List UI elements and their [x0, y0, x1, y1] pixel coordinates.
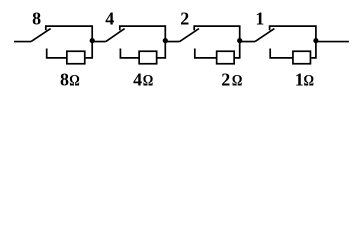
wire main between node A and switch S4 — [92, 41, 106, 43]
svg-text:Ω: Ω — [143, 72, 154, 89]
node B junction dot — [163, 38, 168, 43]
resistor R4 right lead up to node B — [158, 42, 166, 58]
switch S4 arm — [106, 29, 125, 42]
resistor R8 left stub and lead — [47, 49, 67, 58]
wire main between node C and switch S1 — [240, 41, 255, 43]
svg-text:Ω: Ω — [304, 72, 315, 89]
wire main lead left — [14, 41, 31, 43]
resistor R2 body — [217, 51, 235, 64]
svg-text:1: 1 — [255, 8, 264, 28]
node A junction dot — [90, 38, 95, 43]
resistor R8 body — [67, 51, 85, 64]
svg-text:1: 1 — [295, 70, 304, 90]
resistor R1 right lead up to node D — [311, 42, 316, 58]
switch S4 contact and top bypass wire to node B — [120, 26, 166, 41]
resistor R4 body — [139, 51, 157, 64]
switch S1 arm — [255, 29, 274, 42]
svg-text:Ω: Ω — [232, 72, 243, 89]
switch S8 arm — [31, 29, 51, 42]
switch S1 contact and top bypass wire to node D — [270, 26, 316, 41]
switch S2 contact and top bypass wire to node C — [194, 26, 240, 41]
switch S8 contact and top bypass wire to node A — [46, 26, 92, 41]
resistor R8 right lead up to node A — [86, 42, 93, 58]
resistor R2 right lead up to node C — [235, 42, 240, 58]
node C junction dot — [237, 38, 242, 43]
resistor R2 left stub and lead — [195, 49, 217, 58]
svg-text:8: 8 — [32, 8, 41, 28]
resistor R1 body — [293, 51, 311, 64]
node D junction dot — [313, 38, 318, 43]
resistor R4 left stub and lead — [120, 49, 139, 58]
svg-text:Ω: Ω — [69, 72, 80, 89]
svg-text:4: 4 — [133, 70, 142, 90]
svg-text:2: 2 — [221, 70, 230, 90]
switch S2 arm — [180, 29, 199, 42]
wire main lead right — [316, 41, 349, 43]
svg-text:8: 8 — [60, 70, 69, 90]
svg-text:4: 4 — [105, 8, 114, 28]
resistor R1 left stub and lead — [270, 49, 293, 58]
wire main between node B and switch S2 — [165, 41, 179, 43]
svg-text:2: 2 — [180, 8, 189, 28]
